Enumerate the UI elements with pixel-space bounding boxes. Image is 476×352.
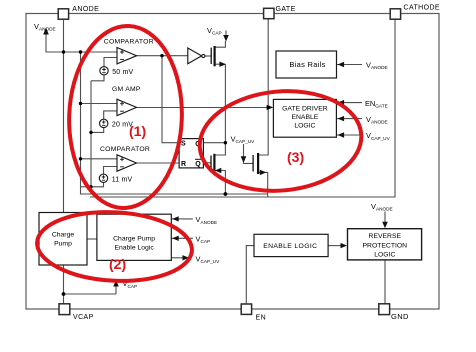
- svg-text:REVERSE: REVERSE: [369, 233, 402, 240]
- svg-text:GATE: GATE: [276, 6, 296, 13]
- svg-text:LOGIC: LOGIC: [294, 123, 315, 130]
- svg-text:S: S: [181, 141, 186, 148]
- svg-text:50 mV: 50 mV: [112, 69, 133, 76]
- svg-text:VCAP: VCAP: [73, 314, 94, 321]
- svg-text:CATHODE: CATHODE: [404, 5, 441, 12]
- svg-text:ENABLE LOGIC: ENABLE LOGIC: [263, 243, 317, 250]
- svg-text:Pump: Pump: [54, 241, 72, 248]
- svg-text:GM AMP: GM AMP: [112, 86, 141, 93]
- svg-text:(2): (2): [109, 256, 126, 272]
- svg-text:Q: Q: [195, 161, 201, 168]
- svg-text:Bias Rails: Bias Rails: [289, 60, 325, 69]
- svg-text:COMPARATOR: COMPARATOR: [104, 38, 154, 45]
- svg-text:(1): (1): [129, 123, 146, 139]
- svg-text:Charge Pump: Charge Pump: [113, 236, 155, 243]
- svg-text:(3): (3): [287, 149, 304, 165]
- svg-text:ANODE: ANODE: [72, 6, 99, 13]
- svg-text:COMPARATOR: COMPARATOR: [100, 146, 150, 153]
- svg-text:Enable Logic: Enable Logic: [114, 244, 154, 251]
- svg-text:R: R: [181, 161, 186, 168]
- svg-text:ENABLE: ENABLE: [291, 114, 318, 121]
- svg-text:Charge: Charge: [52, 232, 75, 239]
- svg-text:EN: EN: [256, 315, 267, 322]
- svg-text:PROTECTION: PROTECTION: [363, 242, 408, 249]
- svg-text:11 mV: 11 mV: [112, 176, 133, 183]
- svg-text:GATE DRIVER: GATE DRIVER: [282, 106, 328, 113]
- svg-text:LOGIC: LOGIC: [374, 252, 395, 259]
- svg-text:GND: GND: [391, 312, 409, 321]
